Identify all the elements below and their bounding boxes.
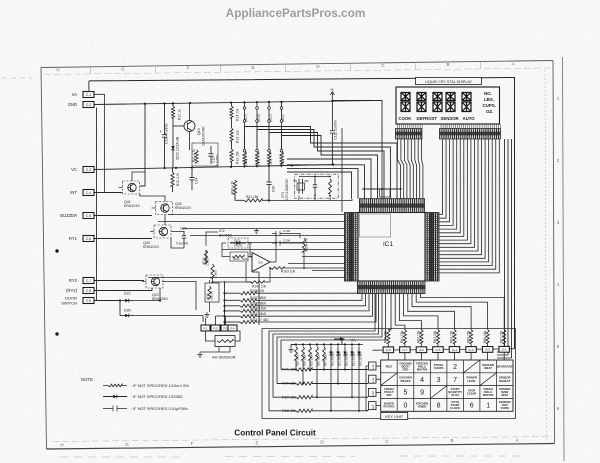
wire Q22 out right <box>162 282 196 311</box>
resistor R112 3.3kD <box>204 250 207 264</box>
capacitor C104 <box>272 242 296 244</box>
wire C-1 right side drop bus <box>95 94 105 192</box>
jumper terminal (J11) <box>281 102 283 107</box>
connector C-8 ((RY2)) <box>83 288 94 294</box>
LCD label box LIQUID CRYSTAL DISPLAY <box>416 78 482 85</box>
sheet frame bottom border <box>47 444 555 450</box>
wire bank drop x=310 <box>309 360 311 370</box>
connector F-2 <box>211 325 220 331</box>
key unit boundary box <box>262 329 516 419</box>
jumper/resistor (J16) 4.7k <box>244 122 246 149</box>
bank element R51 120k <box>316 347 319 361</box>
wire bank drop x=359 <box>358 360 360 411</box>
wire IC1 left pin 4 <box>190 235 345 237</box>
wire LCD-R 16 <box>439 139 496 269</box>
outer right page edge line <box>563 57 565 461</box>
key matrix table frame <box>381 360 513 411</box>
wire LCD-L 8 <box>422 139 423 199</box>
wire LCD-R 17 <box>439 139 499 273</box>
wire mid bundle y=164.8 to IC1 top <box>287 165 365 199</box>
transistor Q41 KRA101S <box>123 181 140 194</box>
wire R69 15k riser to IC1 <box>273 294 379 398</box>
wire IC1 left pin 10 <box>148 277 345 279</box>
resistor R62 15k <box>420 330 423 344</box>
wire x=382 drop to IC1 strip <box>381 151 383 196</box>
connector G-4 <box>449 347 460 353</box>
wire IC1 left pin 7 <box>302 256 345 258</box>
transistor Q10 2SA1037AK <box>184 121 195 132</box>
connector G-11 <box>369 375 377 383</box>
resonator CF1 dashed box <box>295 174 339 198</box>
wire R68 15k riser to IC1 <box>269 294 375 411</box>
wire INT C-4 to Q41 <box>94 192 122 194</box>
wire LCD-R 4 <box>439 139 453 225</box>
wire LCD-R 2 <box>439 139 446 218</box>
bank element D5 1SS355 <box>351 347 353 361</box>
wire RY2 P-7 to Q22 <box>94 280 144 282</box>
LCD box to strip stub wires <box>398 124 501 129</box>
VC rail from C-3 <box>94 165 333 170</box>
wires op-amp area interconnect <box>222 243 252 257</box>
wire G-12 to key row <box>376 365 381 367</box>
registration dot upper left margin <box>55 249 58 252</box>
wire G-7 into key matrix <box>404 353 406 360</box>
op-amp IC1 body <box>358 213 425 282</box>
wire G-5 into key matrix <box>437 353 439 361</box>
resistor R11 4.7k <box>195 150 198 163</box>
resistor R104 47k <box>302 238 305 252</box>
wire IC1 left pin 3 <box>182 228 345 230</box>
ground at key bank left <box>288 347 293 352</box>
resistor R71 15k <box>281 369 296 371</box>
resistor R60 15k <box>387 330 390 344</box>
op-amp IC2 BA4558 <box>252 253 270 272</box>
bank element R55 120k <box>295 347 298 361</box>
wire Q40 up to Q41 area <box>140 194 165 202</box>
bank element R54 120k <box>302 347 305 361</box>
wire LCD-R 13 <box>439 139 485 258</box>
wire LCD-R 5 <box>439 139 457 229</box>
resistor R68 15k <box>269 410 296 412</box>
wire IC1 pin to resistor R62 15k <box>399 294 421 330</box>
connector G-6 <box>416 347 427 353</box>
wire IC1 left pin 5 <box>230 242 345 244</box>
wire Q41 up <box>132 172 145 181</box>
wire G-2 into key matrix <box>487 352 489 360</box>
wire LCD-L 2 <box>401 139 404 199</box>
LCD digit at x=437.5 <box>433 93 442 101</box>
junction dots on GND rail <box>144 103 146 105</box>
wire VA C-1 up to top rail <box>88 81 90 91</box>
junction dots on VC rail <box>163 167 165 169</box>
jumper terminal (J18) <box>256 102 258 106</box>
wire G-6 into key matrix <box>420 353 422 360</box>
wire mid bundle y=172.0 to IC1 top <box>287 172 352 199</box>
ground above op-amp <box>254 228 259 233</box>
wire IC1 pin to resistor R63 15k <box>404 294 438 330</box>
resistor R107 6800 <box>225 299 241 301</box>
wire far-right into key matrix <box>497 352 512 358</box>
resistor R12 15k <box>231 141 233 149</box>
wire stack chain <box>366 366 369 410</box>
connector G-2 <box>482 347 493 353</box>
VA top rail across sheet to right edge <box>89 78 515 349</box>
wire IC1 left pin 2 <box>158 221 345 223</box>
wire vertical x=342 into IC1 left area <box>341 128 343 212</box>
connector C-5 (BUZZER) <box>83 213 94 219</box>
key cell diagonal r3c4 <box>430 386 447 399</box>
connector F-4 <box>228 325 237 331</box>
wire GND rail drop to Q41 <box>140 104 145 186</box>
connector F-3 <box>221 325 230 331</box>
resistor R15 4.7k <box>171 172 174 186</box>
LCD digit at x=466.5 <box>462 93 471 101</box>
resonator crystal plates <box>293 179 309 194</box>
wire IC1 left pin 9 <box>312 270 345 272</box>
wire LCD-R 7 <box>439 139 464 236</box>
resistor R67 15k <box>503 330 506 344</box>
key cell diagonal r2c7 <box>480 373 497 386</box>
wire resonator bottom bus <box>269 199 352 201</box>
connector F-1 <box>201 325 210 331</box>
wire bank drop x=303 <box>302 360 304 384</box>
frame right inner dotted line <box>545 70 547 440</box>
wire LCD-L 1 <box>398 139 401 199</box>
diode D101 RA152 box <box>228 238 248 248</box>
key cell diagonal r1c6 <box>463 360 480 373</box>
jumper/resistor (J12) 4.7k <box>281 122 283 149</box>
wire bank drop x=331 <box>330 360 332 411</box>
bank element D5 1SS355 <box>358 347 360 361</box>
ground below AH sensor <box>197 352 202 357</box>
resistor R30 330 in box <box>205 283 219 302</box>
wire Q43 to C20 <box>171 232 184 249</box>
resonator cap <box>314 177 316 185</box>
wire LCD-L 3 <box>404 139 407 199</box>
wire R71 15k riser to IC1 <box>281 294 386 370</box>
wire LCD-L 6 <box>415 139 417 199</box>
key cell diagonal r2c1 <box>381 373 398 386</box>
jumper/resistor (J14) 4.7k <box>256 122 258 149</box>
LCD left pin strip <box>396 129 423 140</box>
wire resonator top bus <box>299 176 330 178</box>
resistor R102 10k <box>250 281 264 284</box>
resistor R106 47k <box>225 292 241 294</box>
resistor R101 1M box <box>230 252 248 261</box>
connector C-4 (INT) <box>83 190 94 196</box>
wire mid bundle y=168.4 to IC1 top <box>287 168 358 198</box>
IC1 left pin strip <box>345 213 359 282</box>
IC1 top pin strip <box>360 199 425 213</box>
sheet frame top border <box>41 61 553 68</box>
wire IC1 pin to resistor R65 15k <box>412 294 471 330</box>
capacitor C12 0.1u/50v <box>210 146 212 154</box>
wire IC1 pin to resistor R64 15k <box>408 294 455 330</box>
connector G-1 <box>499 346 510 352</box>
wire IC1 left pin 8 <box>288 263 345 265</box>
IC1 bottom pin strip <box>358 281 426 294</box>
left vertical bus from C-2 down <box>96 108 98 301</box>
note capacitor symbol <box>103 408 127 410</box>
small junction box above IC1 top strip <box>380 189 391 197</box>
sheet frame left border <box>41 68 47 450</box>
wire IC1 left pin 1 <box>168 214 345 216</box>
resistor R64 15k <box>453 330 456 344</box>
wire IC1 pin to resistor R60 15k <box>388 294 391 330</box>
wire LCD-L 7 <box>418 139 420 199</box>
connector G-10 <box>369 388 377 396</box>
GND rail from C-2 across top section <box>94 100 382 104</box>
wire J column x=244.5 to IC1 <box>245 127 398 199</box>
wire DOOR P-9 to D22/D30 <box>94 300 120 302</box>
wire loop from GND rail around C111 <box>332 100 382 150</box>
wire LCD-R 14 <box>439 139 489 262</box>
resistor R31 15k label <box>244 199 262 202</box>
wire LCD-R 12 <box>439 139 482 255</box>
connector G-12 <box>369 362 377 370</box>
wire far-right 1 <box>504 139 506 352</box>
wire G-3 into key matrix <box>470 352 472 360</box>
resistor R63 15k <box>436 330 439 344</box>
resistor R66 15k <box>486 330 489 344</box>
connector C-7 (RY2) <box>83 278 94 284</box>
key bank top rail <box>296 344 363 346</box>
wire LCD-R 9 <box>439 139 471 244</box>
capacitor C30 <box>268 166 270 182</box>
wire J column x=257 to IC1 <box>257 130 391 199</box>
faint scan marks bottom of page <box>60 456 520 457</box>
wire G-10 to key row <box>376 391 381 393</box>
wire IC1 pin to resistor R61 15k <box>395 294 405 330</box>
resistor R90 4.7k <box>233 180 236 194</box>
zener diode ZD10 LD2A-3B <box>172 118 174 143</box>
wire bank drop x=296 <box>295 360 297 370</box>
connector C-1 (VA) <box>83 92 94 98</box>
resistor R108 6800 <box>225 305 241 307</box>
connector G-5 <box>433 347 444 353</box>
capacitor C103 <box>272 233 296 235</box>
wire bank drop x=324 <box>323 360 325 370</box>
wire LCD-R 3 <box>439 139 450 222</box>
resonator resistor 1M <box>329 179 332 194</box>
jumper/resistor (J13) 4.7k <box>268 122 270 149</box>
wire joining op-amp feedback lines (bus to F-3) <box>224 281 226 325</box>
wire BUZZER C-5 to Q40 <box>94 215 152 217</box>
resistor R10 1k <box>171 106 174 118</box>
wire G-1 into key matrix <box>503 352 505 360</box>
KEY UNIT label box <box>381 413 408 420</box>
wire far-right 3 <box>511 139 513 358</box>
wire bank drop x=345 <box>344 360 346 370</box>
LCD display box <box>396 87 500 124</box>
wire LCD-R 11 <box>439 139 478 251</box>
LCD right pin strip <box>440 129 501 140</box>
frame bottom dashed line <box>52 437 549 442</box>
wire LCD-R 1 <box>439 139 443 215</box>
wires into F connectors <box>206 316 226 325</box>
transistor Q43 KRA101S <box>154 225 171 238</box>
jumper terminal (J17) <box>244 102 246 106</box>
connector C-3 (VC) <box>83 167 94 173</box>
LCD digit at x=450.5 <box>446 93 455 101</box>
wire G-4 into key matrix <box>454 352 456 360</box>
sheet frame top inner dashed line <box>44 68 550 75</box>
bank element R47 120k <box>323 347 326 361</box>
bank element R53 120k <box>309 347 312 361</box>
wire far-right 2 <box>507 139 509 355</box>
connector C-2 (GND) <box>83 102 94 108</box>
wire from R31 to resonator bus <box>262 199 269 201</box>
capacitor C13 47u/16v <box>164 104 166 135</box>
resistor R70 15k <box>277 383 296 385</box>
resistor R13 10k <box>231 118 233 128</box>
jumper terminal (J10) <box>268 102 270 107</box>
IC1 internal corner detail <box>360 214 391 237</box>
wire R70 15k riser to IC1 <box>277 294 382 384</box>
VA feed arrow for key bank <box>334 339 342 345</box>
wire IC1 pin to resistor R66 15k <box>416 294 487 330</box>
connector G-7 <box>400 347 411 353</box>
wire G-8 into key matrix <box>387 353 389 360</box>
registration dot lower left margin <box>55 332 58 335</box>
connector G-3 <box>466 347 477 353</box>
wire LCD-L 5 <box>411 139 413 199</box>
note resistor symbol <box>103 385 108 387</box>
wire IC1 pin to resistor R67 15k <box>420 294 504 330</box>
wire Q43/Q40 join <box>164 215 166 226</box>
capacitor C111 1u/50v <box>331 100 333 130</box>
resistor column R14 10k <box>230 106 233 118</box>
wire bank drop x=338 <box>337 360 339 384</box>
AH sensor element <box>215 336 235 347</box>
resistor R109 1500 <box>225 310 241 312</box>
wire D22 right to Q22 <box>134 288 160 301</box>
IC1 right strip pin lines <box>425 214 439 279</box>
wire bank drop x=317 <box>316 360 318 397</box>
bank element D5 1SS355 <box>337 347 339 361</box>
resistor R103 10k <box>270 267 284 270</box>
wire LCD-L 4 <box>408 139 410 199</box>
wire RY1 C-6 to Q43 <box>94 238 152 240</box>
wire mid bundle y=159.0 to IC1 top <box>287 159 371 199</box>
resistor R105 3.3kD <box>211 264 214 278</box>
connector C-6 (RY1) <box>83 236 94 242</box>
wire G-9 to key row <box>376 405 381 407</box>
wire LCD-R 10 <box>439 139 474 247</box>
sheet frame right border <box>553 61 555 444</box>
wire (RY2) P-8 right <box>94 288 152 291</box>
wire LCD-R 8 <box>439 139 467 240</box>
resistor R110 15kD <box>225 315 241 317</box>
bank element D5 1SS355 <box>344 347 346 361</box>
wire IC1 left pin 6 <box>222 249 345 251</box>
wire D30 right <box>134 316 203 323</box>
wire J column x=281.5 to IC1 <box>282 136 378 199</box>
connector G-9 <box>369 402 377 410</box>
bank element D5 1SS355 <box>330 347 332 361</box>
capacitor C14 <box>191 168 193 178</box>
connector G-8 <box>383 347 394 353</box>
resistor R65 15k <box>469 330 472 344</box>
note diode symbol <box>103 396 127 398</box>
frame top tick separators <box>91 61 481 73</box>
ground above F connectors <box>204 312 209 317</box>
resistor R111 37 4kD <box>225 321 241 323</box>
connector C-9 (DOOR SWITCH) <box>83 298 94 304</box>
IC1 junction above top strip <box>381 188 383 190</box>
box around R11 C12 <box>192 143 218 166</box>
IC1 right pin strip <box>425 213 439 282</box>
LCD digit at x=405.5 <box>401 93 410 101</box>
connector chain wire above key matrix <box>373 349 515 350</box>
IC1 left strip pin lines <box>345 214 359 279</box>
wire J column x=269 to IC1 <box>269 133 384 199</box>
VA arrow above C111 junction <box>330 92 334 100</box>
wire bank drop x=352 <box>351 360 353 397</box>
resistor R69 15k <box>273 396 296 398</box>
wire G-11 to key row <box>376 378 381 380</box>
wire op-amp down to F-4 <box>258 272 260 325</box>
resistor R61 15k <box>403 330 406 344</box>
LCD digit at x=421.5 <box>417 93 426 101</box>
transistor Q40 KRA101S <box>156 202 173 215</box>
wire LCD-R 6 <box>439 139 460 233</box>
wire LCD-R 15 <box>439 139 492 266</box>
transistor Q22 KRA105S <box>146 275 163 288</box>
